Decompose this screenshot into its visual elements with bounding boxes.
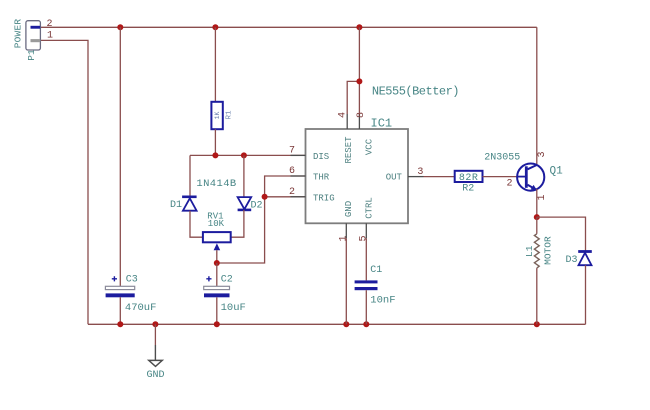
- svg-text:1N414B: 1N414B: [196, 178, 236, 190]
- resistor R1: [211, 102, 222, 129]
- transistor Q1: [517, 164, 544, 191]
- svg-text:D2: D2: [251, 200, 263, 211]
- wire TRIG pin horizontal: [265, 196, 306, 198]
- pin stub 7: [291, 154, 306, 156]
- pin stub 6: [291, 175, 306, 177]
- wire TRIG net: [217, 176, 306, 263]
- node junction emitter: [534, 214, 540, 220]
- svg-text:TRIG: TRIG: [313, 193, 335, 203]
- node junction bus IC GND: [343, 321, 349, 327]
- wire collector drop: [536, 27, 538, 165]
- svg-text:RESET: RESET: [344, 136, 354, 164]
- diode D2: [238, 197, 252, 210]
- wire D1 branch lower: [190, 211, 203, 238]
- node junction DIS-R1: [212, 152, 218, 158]
- wire D2 branch lower: [231, 210, 244, 237]
- potentiometer RV1: [203, 232, 231, 250]
- svg-text:5: 5: [359, 235, 370, 241]
- svg-text:P1: P1: [26, 49, 37, 61]
- svg-text:1: 1: [339, 235, 350, 241]
- svg-text:R1: R1: [226, 110, 234, 120]
- wire RESET pin4 link: [347, 81, 359, 114]
- node junction bus C2: [214, 321, 220, 327]
- wire D1 branch upper: [189, 155, 191, 196]
- svg-text:D3: D3: [566, 255, 578, 266]
- svg-text:C3: C3: [126, 275, 138, 286]
- wire P1 pin1 to ground bus: [40, 40, 88, 324]
- pin stub 8: [358, 114, 360, 129]
- wire R1 branch upper: [214, 27, 216, 102]
- wire DIS net horizontal: [190, 154, 306, 156]
- pin stub 1: [345, 223, 347, 238]
- svg-text:R2: R2: [462, 183, 474, 194]
- svg-text:6: 6: [289, 166, 295, 177]
- svg-text:VCC: VCC: [365, 138, 375, 155]
- wire emitter down: [536, 189, 538, 217]
- capacitor C1: [355, 280, 378, 290]
- wire C3 lower: [119, 297, 121, 324]
- svg-text:OUT: OUT: [386, 173, 403, 183]
- svg-text:GND: GND: [146, 370, 164, 381]
- wire C1 lower: [365, 290, 367, 324]
- node junction top bus IC supply: [356, 24, 362, 30]
- svg-text:THR: THR: [313, 173, 330, 183]
- ground symbol: [149, 345, 162, 366]
- pin stub 5: [365, 223, 367, 238]
- node junction pin8 pin4: [356, 78, 362, 84]
- pin stub 4: [346, 114, 348, 129]
- wire CTRL pin5 down: [365, 238, 367, 280]
- wire R2 to base: [483, 176, 519, 178]
- wire OUT to R2: [424, 176, 455, 178]
- pin stub 2: [291, 196, 306, 198]
- svg-text:1: 1: [47, 31, 53, 42]
- svg-text:D1: D1: [170, 200, 182, 211]
- diode D3: [578, 252, 592, 266]
- svg-text:IC1: IC1: [371, 117, 393, 131]
- node junction top bus R1: [212, 24, 218, 30]
- wire IC GND pin1 down: [345, 238, 347, 324]
- svg-text:7: 7: [289, 145, 295, 156]
- wire GND stub: [154, 324, 156, 345]
- node junction DIS-D2: [241, 152, 247, 158]
- connector P1: [26, 21, 41, 50]
- svg-text:3: 3: [417, 167, 423, 178]
- node junction bus motor: [534, 321, 540, 327]
- node junction wiper C2: [214, 260, 220, 266]
- svg-text:2: 2: [289, 187, 295, 198]
- svg-text:L1: L1: [524, 245, 535, 257]
- op-amp U1 box (NE555 IC1): [306, 129, 409, 223]
- svg-text:C2: C2: [221, 275, 233, 286]
- svg-text:C1: C1: [370, 265, 382, 276]
- capacitor C2: [204, 276, 230, 297]
- wire motor upper: [536, 217, 538, 234]
- node junction TRIG: [262, 194, 268, 200]
- svg-text:10nF: 10nF: [370, 294, 395, 306]
- svg-text:10uF: 10uF: [221, 302, 246, 314]
- wire C2 upper: [216, 263, 218, 286]
- wire D2 branch upper: [243, 155, 245, 197]
- wire R1 branch lower: [214, 129, 216, 155]
- pin stub 3: [408, 176, 424, 178]
- node junction bus C1: [363, 321, 369, 327]
- wire D3 lower: [585, 265, 587, 324]
- svg-text:CTRL: CTRL: [365, 197, 375, 219]
- svg-text:NE555(Better): NE555(Better): [372, 85, 459, 99]
- svg-text:DIS: DIS: [313, 152, 329, 162]
- wire C3 upper: [119, 27, 121, 286]
- svg-text:470uF: 470uF: [125, 302, 157, 314]
- wire top VCC bus: [40, 26, 536, 28]
- svg-text:MOTOR: MOTOR: [543, 236, 554, 265]
- svg-text:1: 1: [537, 194, 548, 200]
- inductor L1: [534, 234, 539, 268]
- capacitor C3: [105, 276, 134, 297]
- svg-text:2: 2: [507, 179, 513, 190]
- wire motor lower: [536, 268, 538, 324]
- svg-text:2: 2: [47, 19, 53, 30]
- wire VCC pin8 vertical: [358, 27, 360, 114]
- svg-text:8: 8: [356, 112, 367, 118]
- svg-text:GND: GND: [344, 201, 354, 217]
- svg-text:3: 3: [537, 151, 548, 157]
- resistor R2: [455, 171, 483, 182]
- svg-text:10K: 10K: [208, 219, 225, 229]
- svg-text:2N3055: 2N3055: [484, 153, 520, 164]
- svg-text:POWER: POWER: [13, 19, 24, 49]
- diode D1: [182, 197, 197, 211]
- svg-text:1K: 1K: [214, 112, 221, 120]
- svg-text:Q1: Q1: [550, 166, 564, 178]
- wire C2 lower: [216, 297, 218, 324]
- wire to D3: [537, 217, 586, 251]
- node junction top bus C3: [117, 24, 123, 30]
- node junction bus GND: [152, 321, 158, 327]
- wire RV1 wiper down: [216, 250, 218, 263]
- node junction bus C3: [117, 321, 123, 327]
- wire ground bus: [88, 323, 586, 325]
